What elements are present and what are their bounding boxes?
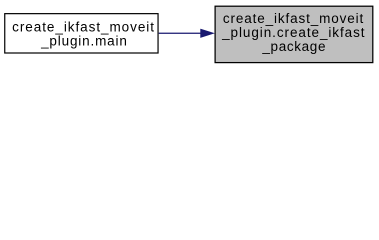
- svg-text:_package: _package: [261, 39, 326, 54]
- svg-text:create_ikfast_moveit: create_ikfast_moveit: [223, 11, 364, 26]
- node create_ikfast_moveit_plugin.main: [5, 14, 158, 53]
- node create_ikfast_moveit_plugin.create_ikfast_package (current node, grey): [215, 6, 373, 62]
- svg-text:_plugin.main: _plugin.main: [40, 34, 128, 49]
- edge main -> create_ikfast_package: [159, 29, 214, 37]
- svg-text:create_ikfast_moveit: create_ikfast_moveit: [12, 19, 155, 34]
- svg-text:_plugin.create_ikfast: _plugin.create_ikfast: [221, 25, 365, 40]
